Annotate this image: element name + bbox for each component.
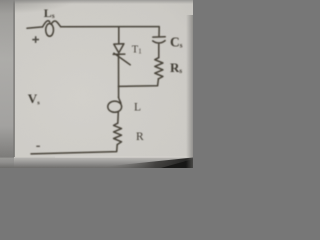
capacitor Cs (153, 36, 165, 38)
label + terminal (32, 36, 39, 43)
resistor Rs (155, 58, 163, 79)
thyristor T1 (114, 44, 124, 53)
wire thyristor branch from top rail (118, 27, 120, 44)
wire top rail right segment (61, 26, 159, 28)
wire bottom rail (31, 145, 117, 154)
wire main vertical below thyristor (118, 54, 120, 97)
inductor L (loop symbol) (118, 97, 121, 103)
wire snubber branch top stub (158, 27, 160, 37)
label - terminal (36, 146, 40, 147)
resistor R (114, 123, 122, 144)
inductor Ls (loop symbol) (43, 21, 50, 27)
wire snubber bottom to junction (118, 79, 158, 87)
wire top rail left segment (27, 27, 43, 28)
